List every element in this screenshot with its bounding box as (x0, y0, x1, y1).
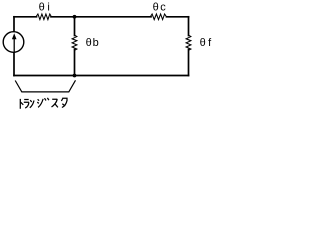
svg-text:b: b (93, 37, 99, 49)
svg-text:θ: θ (153, 1, 159, 13)
svg-text:θ: θ (200, 37, 206, 49)
svg-text:θ: θ (86, 37, 92, 49)
svg-text:θ: θ (39, 1, 45, 13)
svg-text:i: i (47, 1, 49, 13)
svg-text:c: c (160, 1, 166, 13)
